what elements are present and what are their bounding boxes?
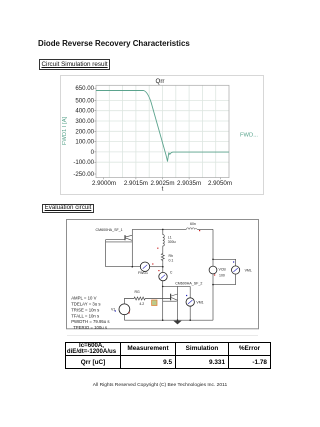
voltmeter VML <box>232 266 240 274</box>
node ground rail junctions <box>162 319 164 321</box>
inductor Ls 60n <box>186 228 197 230</box>
svg-text:t: t <box>162 185 164 192</box>
chart frame <box>61 76 264 195</box>
svg-text:-100.00: -100.00 <box>73 159 94 166</box>
voltmeter VM1 stub top <box>189 286 191 297</box>
junction dots <box>132 229 214 321</box>
wire right rail lower <box>212 274 214 320</box>
node right rail lower <box>212 284 214 286</box>
wire probe C to node <box>162 281 164 287</box>
svg-text:PWIDTH = 79.95u s: PWIDTH = 79.95u s <box>71 319 109 324</box>
transistor Q1 emitter stroke <box>126 238 133 240</box>
svg-text:100: 100 <box>219 274 225 278</box>
wire FWD1 left segment <box>106 266 141 268</box>
probe arrows (blue) <box>143 265 238 304</box>
svg-text:V1: V1 <box>111 308 115 312</box>
wire top rail <box>132 228 186 230</box>
chart: Qrr simulation waveform <box>60 75 264 195</box>
svg-text:FWD1: FWD1 <box>138 271 148 275</box>
svg-text:VM1: VM1 <box>196 300 203 304</box>
wire ground rail <box>124 319 213 321</box>
svg-text:CM600HA_SF_2: CM600HA_SF_2 <box>175 282 202 286</box>
wire Q1 gate <box>106 239 125 241</box>
svg-text:TPERIO = 100u s: TPERIO = 100u s <box>73 325 107 330</box>
current probe FWD1 <box>140 262 149 271</box>
wire kelvin to ground rail <box>162 286 164 320</box>
node Q1 emitter junction <box>132 266 134 268</box>
evaluation circuit schematic <box>66 219 259 337</box>
voltmeter VM1 stub bottom <box>189 306 191 320</box>
svg-text:300u: 300u <box>168 240 176 244</box>
node top mid junction <box>162 229 164 231</box>
svg-text:AMPL = 10 V: AMPL = 10 V <box>71 296 96 301</box>
svg-text:CM600HA_SF_1: CM600HA_SF_1 <box>96 228 123 232</box>
results table <box>65 342 271 369</box>
svg-text:60n: 60n <box>190 222 196 226</box>
svg-text:300.00: 300.00 <box>75 118 94 125</box>
transistor Q2 emitter stroke <box>171 298 177 301</box>
y axis labels <box>73 85 94 178</box>
component labels <box>96 222 252 312</box>
svg-text:L1: L1 <box>168 236 172 240</box>
wire Q2 gate <box>150 298 171 300</box>
x axis labels <box>92 180 232 192</box>
transistor Q1 gate bar <box>124 235 126 240</box>
transistor Q2 collector stroke <box>171 294 177 296</box>
svg-text:-250.00: -250.00 <box>73 171 94 178</box>
svg-text:TFALL = 10n s: TFALL = 10n s <box>71 314 99 319</box>
wire V1 bottom <box>123 315 125 321</box>
trace FWD1 current waveform <box>96 91 229 162</box>
svg-text:FWD...: FWD... <box>240 133 258 139</box>
svg-text:Rh: Rh <box>169 254 174 258</box>
svg-text:400.00: 400.00 <box>75 108 94 115</box>
svg-text:650.00: 650.00 <box>75 85 94 92</box>
node FWD1 tee <box>162 266 164 268</box>
svg-text:RG: RG <box>135 290 141 294</box>
voltmeter VML loop bottom <box>213 274 236 285</box>
resistor RG <box>133 297 150 300</box>
voltmeter VM1 <box>186 298 194 306</box>
voltmeter VML loop top <box>213 259 236 266</box>
label: Circuit Simulation result <box>39 59 110 71</box>
polarity marks <box>129 230 216 313</box>
wire right rail upper <box>212 229 214 266</box>
svg-text:Qrr: Qrr <box>156 78 165 85</box>
wire collector node horizontal <box>163 285 191 287</box>
svg-text:FWD1 I [A]: FWD1 I [A] <box>62 116 68 145</box>
svg-text:2.9050m: 2.9050m <box>208 180 232 187</box>
svg-text:TDELAY = 3u s: TDELAY = 3u s <box>71 302 100 307</box>
svg-text:4.2: 4.2 <box>139 302 144 306</box>
voltage source VCB <box>209 266 217 274</box>
svg-text:200.00: 200.00 <box>75 128 94 135</box>
slide title <box>38 39 190 48</box>
svg-text:VML: VML <box>245 269 252 273</box>
pulse source V1 <box>119 304 130 315</box>
frame shadow line <box>67 335 258 337</box>
wire V1 top <box>124 299 133 304</box>
svg-text:100.00: 100.00 <box>75 139 94 146</box>
wire FWD1 right segment <box>150 266 163 268</box>
svg-text:TRISE = 10n s: TRISE = 10n s <box>71 308 99 313</box>
transistor Q2 collector-emitter vertical <box>177 286 179 320</box>
wire left loop vertical <box>105 240 107 267</box>
wire Rh to probe C <box>162 262 164 272</box>
transistor Q1 collector-emitter vertical <box>131 229 133 266</box>
label: Evaluation circuit <box>42 204 94 213</box>
node collector junction <box>162 286 164 288</box>
current probe C <box>159 272 167 280</box>
svg-text:0.1: 0.1 <box>169 259 174 263</box>
schematic frame <box>67 220 259 329</box>
V1 parameter text block <box>71 296 109 330</box>
ground symbol <box>173 321 181 325</box>
node right rail upper <box>212 259 214 261</box>
resistor Rh <box>161 252 164 262</box>
IC marker box (orange) <box>152 300 157 306</box>
footer copyright <box>0 383 320 388</box>
transistor Q2 gate bar <box>170 294 172 301</box>
transistor Q1 collector stroke <box>126 235 133 237</box>
wire Q2 kelvin emitter <box>163 300 177 302</box>
svg-text:500.00: 500.00 <box>75 97 94 104</box>
svg-text:2.9000m: 2.9000m <box>92 180 116 187</box>
svg-text:VCB: VCB <box>219 268 227 272</box>
svg-text:2.9015m: 2.9015m <box>124 180 148 187</box>
svg-text:2.9035m: 2.9035m <box>177 180 201 187</box>
plot border <box>96 85 229 177</box>
y tick marks <box>94 88 220 179</box>
gridlines <box>96 85 229 177</box>
inductor L1 <box>163 229 165 252</box>
wire Q1 kelvin emitter <box>106 241 133 243</box>
